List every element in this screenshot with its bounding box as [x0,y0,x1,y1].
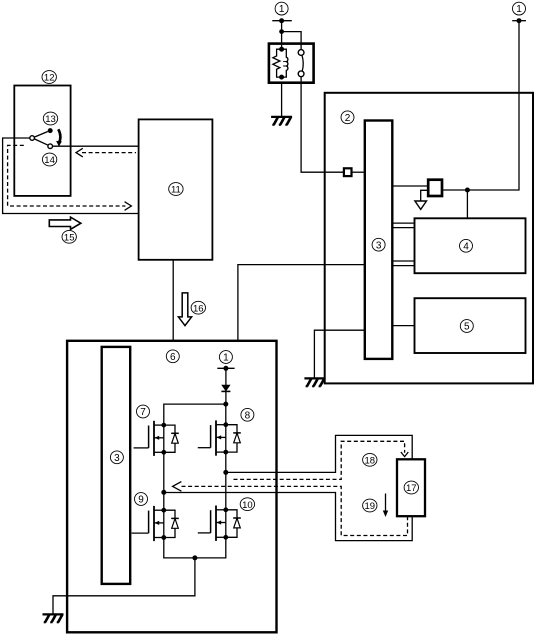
wire: branch to relay switch [282,32,302,50]
bus pair: connector 3 to box 4 (upper) [392,223,414,228]
transistor Q7 (label 7, high side left) [134,421,179,456]
wire: relay coil to ground [281,83,283,117]
terminal tick at node 1 top-right [512,20,526,22]
box 5 [415,298,526,353]
connector 3 (tall, inside box 6) [102,347,131,584]
wire: relay switch to connector square on box 2 [301,77,344,173]
label 6 [166,350,179,363]
svg-text:2: 2 [345,113,351,124]
connector square 2 [428,180,442,196]
label 14 [42,153,56,166]
junction dot right of square 2 [465,188,470,193]
wire: switch pole return loop to box 11 [3,138,139,214]
label 8 [241,408,254,421]
svg-text:12: 12 [44,73,55,84]
terminal tick inside box 6 [217,367,234,369]
wire: node 1 down to relay coil [281,21,283,50]
wire: diode to top rail [225,391,227,404]
svg-text:15: 15 [64,232,75,243]
svg-text:6: 6 [170,352,176,363]
dashed flow: motor back to H-bridge [182,486,408,535]
box 4 [415,218,526,273]
label 10 [240,498,254,511]
svg-text:17: 17 [406,483,417,494]
transistor Q8 (label 8, high side right) [198,420,241,455]
block arrow 15 [49,217,81,229]
svg-text:3: 3 [376,240,382,251]
box 2 [325,93,533,384]
label 19 [363,499,377,512]
transistor Q10 (label 10, low side right) [198,506,241,541]
wire: Q9 source to bottom rail [164,537,226,558]
svg-text:1: 1 [279,4,285,15]
wire: square to connector 3 [352,171,365,173]
open arrow head right [125,202,132,211]
label 12 [42,71,56,84]
node 1 label (top right battery feed) [513,2,526,15]
label 7 [137,405,150,418]
transistor Q9 (label 9, low side left) [132,506,179,541]
ground bottom left [43,614,64,622]
svg-text:4: 4 [463,241,469,252]
svg-text:7: 7 [140,407,146,418]
wire: right output node to motor loop [164,435,412,540]
node 1 label (inside box 6) [219,351,232,364]
junction dot bottom rail [192,555,197,560]
ground left of box 2 [304,378,325,386]
tap wire to hollow arrow [421,190,429,201]
diode (series, pointing down) [221,385,230,391]
open arrow head left [76,148,83,157]
svg-text:14: 14 [44,155,55,166]
wire: rail down to Q8 [225,404,227,425]
label 4 [460,239,473,252]
svg-text:11: 11 [171,185,181,196]
svg-text:1: 1 [223,353,229,364]
relay coil (resistor + inductor in parallel) [273,47,288,80]
label 13 [43,112,57,125]
svg-text:18: 18 [365,455,376,466]
terminal tick at node 1 top-left [272,20,292,22]
relay switch contacts [298,50,304,77]
wire: Q7 source to left output node [163,452,165,510]
svg-text:8: 8 [245,410,251,421]
junction dot right output node [223,470,228,475]
svg-text:19: 19 [365,501,376,512]
label 2 [341,111,354,124]
connector square on box 2 left edge [344,168,352,176]
label 9 [135,493,148,506]
ground below relay [271,117,292,125]
wire: switch contact 14 to box 11 [53,145,139,147]
bus pair: connector 3 to box 4 (lower) [392,261,414,266]
label 3 (box 2 connector) [372,238,385,251]
wire: Q8 source down to Q10 [225,452,227,510]
wire: box 6 up and right to box 2 connector 3 [238,265,365,341]
label 17 [404,481,418,494]
wire: box 11 down to box 6 [172,260,174,341]
junction dot top rail [223,402,228,407]
top rail wire [164,404,226,425]
box 11 [139,119,213,259]
wire: connector 3 to ground (left of box 2) [314,330,364,378]
junction dot branch to relay switch [279,29,284,34]
box 17 (motor) [397,459,425,516]
svg-text:13: 13 [45,114,56,125]
label 3 (box 6 connector) [110,451,123,464]
label 15 [62,230,76,243]
junction dot at node 1 top-left [279,18,284,23]
box 12 [14,86,70,196]
block arrow 16 [178,293,191,326]
wire: connector 3 to box 5 [392,325,414,327]
hollow arrow (signal out) [415,201,427,209]
switch 13/14 (two position) [30,128,62,148]
dashed flow: box 11 to switch (arrow left) [82,152,136,154]
svg-text:16: 16 [193,303,204,314]
wire: connector 3 to square 2 [392,185,428,187]
svg-text:3: 3 [114,453,120,464]
wire: tick to diode [225,368,227,385]
node 1 label (top left battery feed) [275,2,288,15]
arrow 19 (down) [383,494,388,518]
connector 3 (tall, inside box 2) [365,121,393,359]
box 6 [67,341,276,633]
open arrow head left toward bridge [173,482,182,492]
wire: node 1 right down to controller [442,21,519,190]
svg-text:5: 5 [464,322,470,333]
junction dot at node 1 top-right [517,18,522,23]
dashed flow: H-bridge to motor (into 17 top) [234,441,405,479]
open arrow head down into 17 [401,452,408,457]
dashed flow loop: switch down and right to box 11 [8,145,126,206]
wire: junction down into box 4 [466,190,468,218]
relay box [269,44,314,83]
svg-text:1: 1 [516,4,522,15]
svg-text:10: 10 [242,500,253,511]
label 11 [169,183,183,196]
label 18 [363,453,377,466]
junction dot left output node [161,490,166,495]
junction dot below tick [223,366,228,371]
label 5 [460,320,473,333]
wire: bottom rail to ground (bottom left) [53,558,195,614]
svg-text:9: 9 [138,495,144,506]
label 16 [191,301,205,314]
